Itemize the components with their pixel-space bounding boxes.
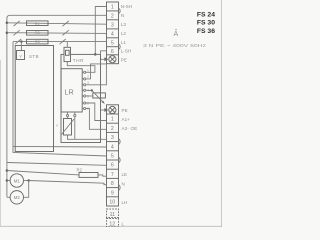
wire pin 7 to terminal A2 bbox=[86, 109, 107, 130]
svg-text:6: 6 bbox=[111, 49, 114, 55]
terminal strip X2 body bbox=[107, 105, 119, 206]
svg-text:A2-: A2- bbox=[122, 126, 130, 131]
wire pin 4 to trimmer arrow bbox=[86, 89, 92, 91]
strip labels lower bbox=[122, 108, 138, 227]
node: R2 feed junction bbox=[6, 169, 8, 172]
svg-text:M1: M1 bbox=[14, 178, 21, 183]
THR thermal sensor bbox=[64, 47, 71, 61]
LR regulator box bbox=[61, 69, 82, 112]
resistor R2 heater bbox=[27, 31, 49, 36]
svg-text:3: 3 bbox=[87, 81, 89, 85]
STB enclosure box bbox=[15, 46, 53, 152]
contact S3a bbox=[15, 39, 21, 44]
terminal 12 dashed bbox=[107, 219, 119, 228]
wire bus to M1 bbox=[7, 180, 11, 182]
jumper loop terminals 5-6 bbox=[119, 44, 121, 50]
node: STB tap on row 3 bbox=[20, 40, 22, 42]
svg-text:LH: LH bbox=[122, 200, 128, 205]
node: motor M1 left junction bbox=[6, 179, 8, 182]
wire bus to resistor R2 bbox=[7, 171, 79, 175]
terminal numbers 1-10 bbox=[109, 117, 115, 206]
resistor R3 bbox=[27, 39, 49, 44]
pin number labels bbox=[87, 69, 89, 111]
svg-text:L1: L1 bbox=[121, 40, 127, 45]
strip labels upper bbox=[121, 4, 132, 62]
svg-text:FS 36: FS 36 bbox=[197, 28, 215, 35]
svg-text:1: 1 bbox=[111, 5, 114, 11]
varistor bbox=[64, 119, 72, 136]
LR pin 6 bbox=[82, 102, 86, 104]
wire M2 right up to junction bbox=[24, 181, 29, 198]
svg-text:1: 1 bbox=[87, 69, 89, 73]
svg-text:STB: STB bbox=[29, 54, 39, 59]
svg-text:M2: M2 bbox=[14, 195, 21, 200]
terminal strip X1 body bbox=[107, 2, 119, 64]
wire heater row 3 to terminal 5 bbox=[13, 41, 107, 43]
trimmer resistor P1 bbox=[93, 93, 106, 98]
svg-text:8: 8 bbox=[111, 181, 114, 187]
svg-text:2: 2 bbox=[111, 14, 114, 20]
wire pin 6 to terminal A1 bbox=[86, 103, 107, 121]
svg-text:2: 2 bbox=[111, 126, 114, 132]
arrow into upper PE bbox=[101, 54, 105, 59]
LR pin 1 bbox=[82, 71, 86, 73]
svg-text:R3: R3 bbox=[35, 40, 40, 44]
svg-text:4: 4 bbox=[111, 144, 114, 150]
svg-text:FS 24: FS 24 bbox=[197, 11, 215, 18]
wire left edge to terminal 6 lower bbox=[7, 163, 107, 166]
model designation text FS 24 / FS 30 / FS 36 bbox=[197, 11, 215, 34]
svg-text:LE: LE bbox=[122, 172, 128, 177]
svg-text:R1: R1 bbox=[35, 22, 40, 26]
svg-text:7: 7 bbox=[111, 172, 114, 178]
svg-text:6: 6 bbox=[111, 163, 114, 169]
node: heater row 2 junction bbox=[6, 32, 8, 35]
trimmer adjustment arrow bbox=[92, 90, 103, 102]
wire row3 drop to lower strip 5 bbox=[13, 42, 107, 156]
svg-text:5: 5 bbox=[111, 154, 114, 160]
LR enclosure box bbox=[61, 54, 101, 142]
svg-text:A1+: A1+ bbox=[122, 117, 131, 122]
LR pin 5 bbox=[82, 95, 86, 97]
node: trimmer arrow start bbox=[91, 89, 93, 91]
svg-text:11: 11 bbox=[110, 212, 115, 218]
svg-text:4: 4 bbox=[111, 32, 114, 38]
motor M1 bbox=[10, 174, 23, 187]
svg-text:L3: L3 bbox=[121, 22, 127, 27]
svg-text:L-SH: L-SH bbox=[121, 49, 131, 54]
svg-text:L: L bbox=[122, 222, 125, 227]
svg-text:12: 12 bbox=[109, 221, 115, 227]
contact S1b bbox=[63, 21, 69, 26]
svg-text:THR: THR bbox=[73, 58, 84, 63]
svg-text:N: N bbox=[122, 181, 125, 186]
svg-text:N: N bbox=[121, 13, 124, 18]
node: shield junction bbox=[94, 53, 97, 56]
arrow into lower PE bbox=[104, 108, 108, 112]
svg-text:FS 30: FS 30 bbox=[197, 20, 215, 27]
wire to lower terminal 4 bbox=[13, 145, 107, 148]
LR pin 3 bbox=[82, 84, 86, 86]
svg-text:LR: LR bbox=[65, 88, 74, 97]
contact S2a bbox=[14, 30, 20, 35]
wire into STB bbox=[20, 42, 22, 51]
wire varistor to terminal 3 lower bbox=[68, 135, 107, 139]
svg-text:3: 3 bbox=[111, 135, 114, 141]
contact S1a bbox=[14, 21, 20, 26]
jumper loop terminals 8-9 bbox=[119, 185, 121, 191]
terminal numbers 1-6 bbox=[111, 5, 114, 55]
PE earth terminal symbol (lower) bbox=[109, 106, 116, 113]
svg-text:N-SH: N-SH bbox=[121, 4, 132, 9]
wire pin 5 to trimmer bbox=[86, 95, 93, 97]
node: motor output junction bbox=[27, 179, 30, 182]
svg-text:3 N PE ~ 400V 50Hz: 3 N PE ~ 400V 50Hz bbox=[143, 43, 207, 49]
wire motors to terminal 8 N bbox=[29, 181, 107, 185]
svg-text:10: 10 bbox=[109, 200, 115, 206]
wire N: terminal 2 to left bus bbox=[7, 15, 107, 18]
N bus vertical bbox=[6, 18, 8, 197]
PE earth terminal symbol (upper) bbox=[109, 56, 116, 63]
jumper loop terminals 3-4 bbox=[119, 139, 121, 145]
LR pin 2 bbox=[82, 78, 86, 80]
svg-text:R2: R2 bbox=[35, 31, 40, 35]
wire THR bottom to LR pin 1 bbox=[67, 62, 95, 73]
svg-text:3: 3 bbox=[111, 23, 114, 29]
wire N-SH: terminal 1 to shield drop bbox=[95, 7, 106, 55]
svg-text:R2: R2 bbox=[77, 168, 83, 173]
STB thermostat bbox=[17, 51, 25, 60]
svg-text:v: v bbox=[56, 123, 58, 128]
node: heater row 1 junction bbox=[6, 22, 8, 25]
LR bottom pin b bbox=[74, 112, 76, 139]
svg-text:1: 1 bbox=[111, 117, 114, 123]
LR pin 7 bbox=[82, 107, 86, 109]
wire heater row 2 to terminal 4 bbox=[7, 32, 107, 35]
resistor R1 bbox=[27, 21, 49, 26]
motor M2 bbox=[10, 191, 23, 204]
LR bottom pin a bbox=[66, 112, 68, 119]
wire R2 to terminal 7 LE bbox=[98, 175, 107, 176]
svg-text:A: A bbox=[174, 31, 179, 38]
jumper loop terminals 1-2 bbox=[119, 8, 121, 14]
wire bus to M2 bbox=[7, 196, 10, 198]
svg-text:PE: PE bbox=[121, 57, 127, 62]
svg-text:2: 2 bbox=[87, 75, 89, 79]
wire shield jog to terminal 6 bbox=[95, 51, 106, 55]
LR pin 4 bbox=[82, 89, 86, 91]
wire pins 2-3 link bbox=[86, 64, 107, 85]
scan border frame bbox=[0, 0, 222, 227]
svg-text:OE: OE bbox=[131, 126, 138, 131]
wire heater row 1 to terminal 3 bbox=[7, 23, 107, 24]
jumper loop terminals 5-6 bbox=[119, 157, 121, 163]
contact S2b bbox=[63, 30, 69, 35]
svg-text:9: 9 bbox=[111, 190, 114, 196]
svg-text:PE: PE bbox=[122, 108, 128, 113]
svg-text:L2: L2 bbox=[121, 31, 127, 36]
wire THR top to row 3 bbox=[66, 42, 68, 48]
resistor R2 bbox=[79, 173, 98, 178]
wire M1 right to junction bbox=[24, 180, 29, 182]
terminal 11 dashed bbox=[107, 209, 119, 218]
contact S3b bbox=[60, 39, 66, 44]
wire trimmer to lower PE bbox=[101, 109, 105, 111]
svg-text:5: 5 bbox=[111, 41, 114, 47]
